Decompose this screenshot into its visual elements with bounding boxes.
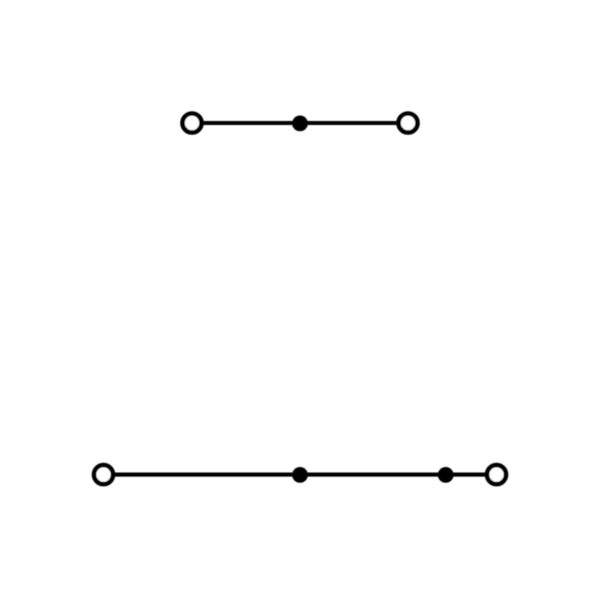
terminal (clamp port) lower-left, open circle	[94, 465, 113, 484]
wire: lower deck conductor	[104, 473, 497, 477]
junction dot: lower deck commoning point A	[292, 467, 308, 483]
junction dot: lower deck commoning point B	[438, 467, 454, 483]
terminal (clamp port) upper-left, open circle	[183, 114, 202, 133]
terminal (clamp port) upper-right, open circle	[399, 114, 418, 133]
junction dot: upper deck commoning point	[292, 116, 308, 132]
wire: upper deck conductor	[192, 121, 408, 125]
terminal (clamp port) lower-right, open circle	[487, 465, 506, 484]
